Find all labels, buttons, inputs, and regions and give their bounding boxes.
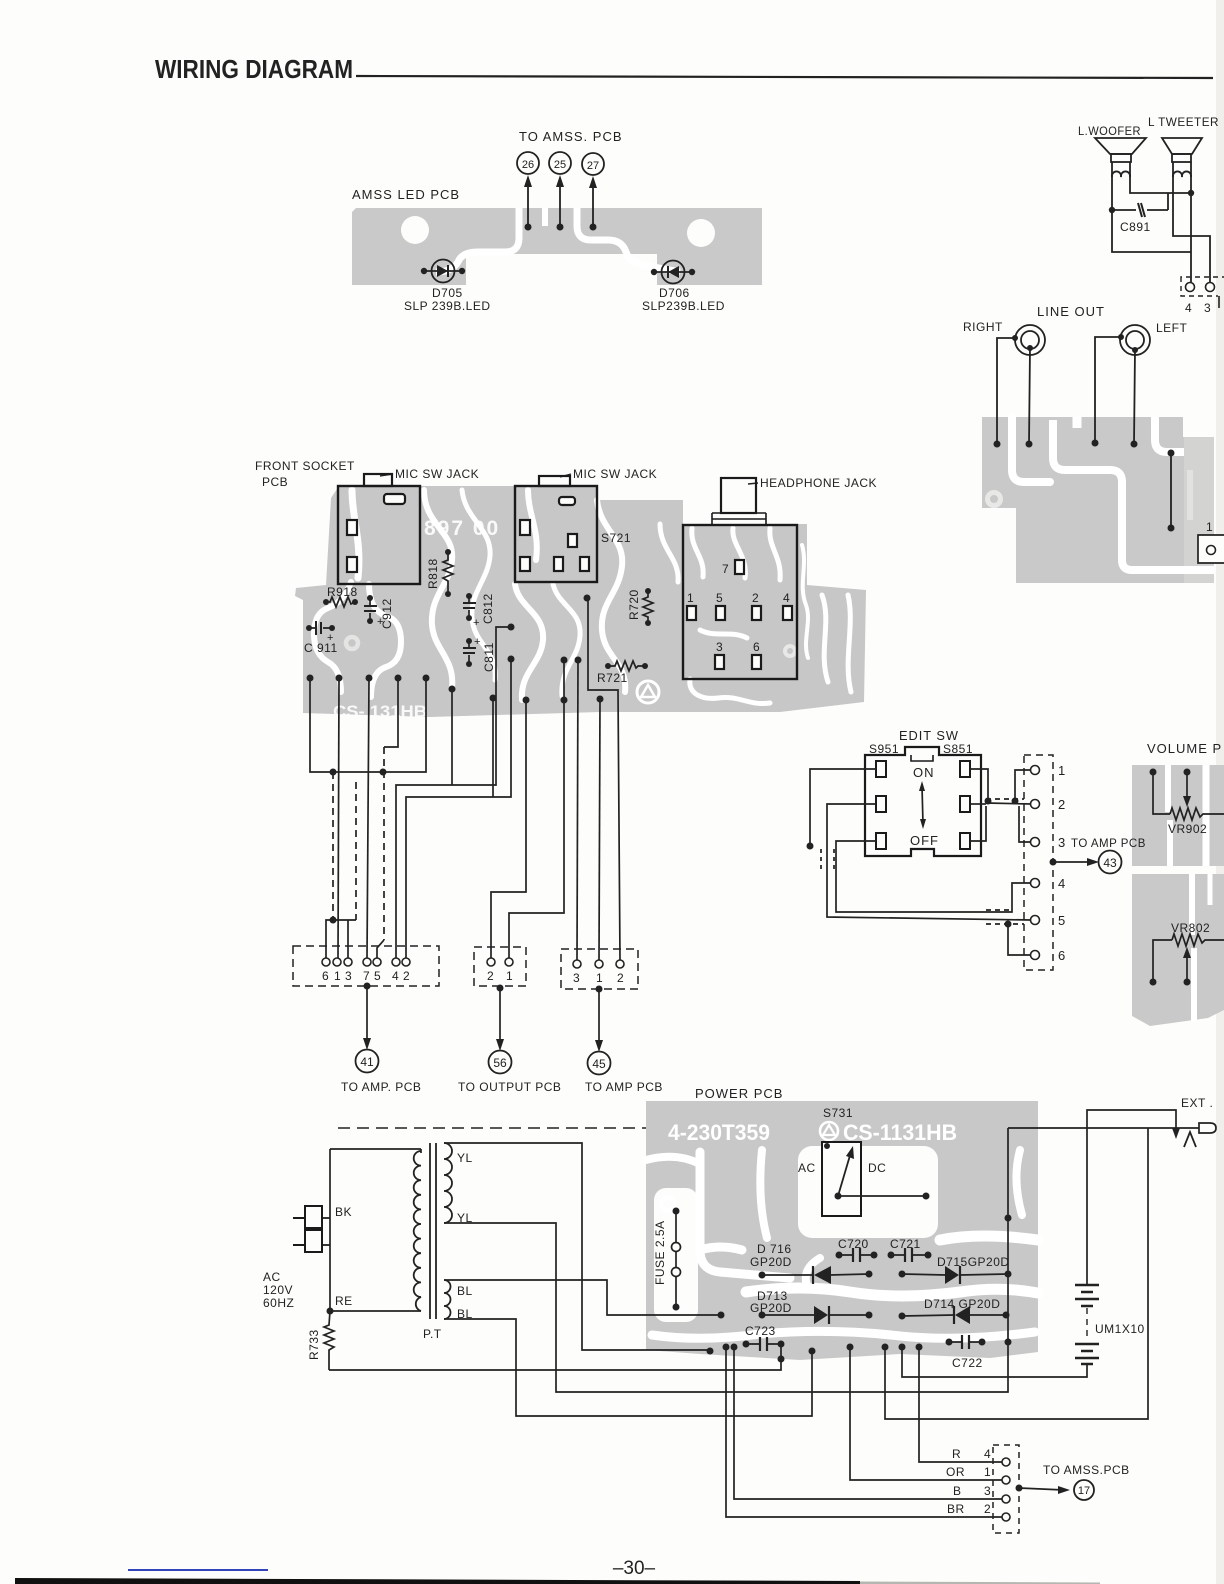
capacitor C722	[946, 1335, 986, 1370]
battery UM1X10	[902, 1110, 1180, 1377]
svg-text:TO AMP PCB: TO AMP PCB	[1071, 838, 1146, 850]
svg-text:4: 4	[1185, 301, 1192, 315]
svg-text:VOLUME P: VOLUME P	[1147, 741, 1222, 756]
connector 17 dashed box	[993, 1445, 1019, 1533]
wire YL mid lead	[444, 1128, 1008, 1392]
arrow to circle 45	[596, 986, 603, 993]
svg-text:4: 4	[984, 1447, 991, 1461]
svg-text:ON: ON	[913, 765, 935, 780]
svg-text:R733: R733	[307, 1329, 321, 1360]
svg-text:897 00: 897 00	[424, 517, 500, 540]
AMSS LED PCB board	[352, 208, 762, 285]
svg-text:3: 3	[984, 1484, 991, 1498]
capacitor C720	[836, 1237, 878, 1262]
svg-text:120V: 120V	[263, 1283, 293, 1297]
wire BL bottom lead	[444, 1319, 812, 1416]
svg-text:FUSE 2.5A: FUSE 2.5A	[653, 1220, 667, 1285]
svg-text:C722: C722	[952, 1356, 983, 1370]
dashed line to power pcb	[338, 1127, 646, 1129]
wire arrow to 25	[559, 180, 561, 227]
wire right pin bottom	[970, 806, 986, 841]
connector pins 1-6	[1031, 766, 1040, 960]
wire 56 pin1	[509, 660, 564, 958]
svg-text:S731: S731	[823, 1106, 853, 1120]
title WIRING DIAGRAM	[155, 54, 1213, 84]
PCB mounting hole right	[687, 219, 715, 247]
wire OR to pin1	[850, 1347, 1002, 1480]
wire right pin mid	[970, 803, 986, 805]
transformer secondary YL	[444, 1143, 452, 1223]
white triangle logo	[637, 681, 659, 703]
resistor R720	[627, 588, 653, 626]
wire woofer right lead	[1130, 177, 1191, 193]
svg-text:45: 45	[592, 1057, 606, 1071]
svg-text:SLP 239B.LED: SLP 239B.LED	[404, 299, 491, 313]
terminal circle 41	[356, 1050, 379, 1073]
wire left pin top	[810, 769, 876, 846]
svg-text:1: 1	[1206, 520, 1213, 534]
wire 45 pin1	[599, 699, 600, 960]
connector 41 pins	[322, 958, 410, 966]
white ring right	[785, 646, 795, 656]
wire R733 bus	[329, 1344, 781, 1370]
terminal circle 25	[549, 152, 571, 174]
transformer P.T primary coil	[414, 1151, 421, 1311]
arrow to circle 17	[1016, 1485, 1023, 1492]
wire pcb dot to bus	[310, 678, 426, 772]
svg-text:HEADPHONE JACK: HEADPHONE JACK	[760, 476, 877, 490]
switch arrow	[922, 786, 923, 824]
trace channels	[1168, 765, 1170, 866]
wire to pin3	[1019, 806, 1031, 842]
svg-text:EDIT SW: EDIT SW	[899, 728, 959, 743]
mounting hole ring	[988, 493, 1001, 506]
svg-text:1: 1	[506, 969, 513, 983]
EXT jack	[1180, 1096, 1216, 1147]
wire right jack shield	[997, 338, 1015, 444]
svg-text:MIC SW JACK: MIC SW JACK	[395, 467, 479, 481]
connector block 41 dashed box	[293, 946, 439, 986]
blue mark	[128, 1569, 268, 1571]
trace channels	[314, 490, 851, 704]
resistor R721	[597, 661, 648, 685]
terminal circle 45	[588, 1052, 611, 1075]
mic sw jack 1 body	[338, 486, 420, 584]
svg-text:AMSS LED PCB: AMSS LED PCB	[352, 187, 460, 202]
terminal circle 17	[1074, 1480, 1094, 1500]
wire YL top lead	[444, 1143, 710, 1350]
svg-text:CS- 131HB: CS- 131HB	[333, 702, 427, 721]
wire woofer left lead down	[1112, 177, 1191, 252]
svg-text:RIGHT: RIGHT	[963, 320, 1003, 334]
svg-text:D715GP20D: D715GP20D	[937, 1255, 1010, 1269]
svg-text:FRONT SOCKET: FRONT SOCKET	[255, 459, 355, 473]
svg-text:R: R	[952, 1447, 961, 1461]
svg-text:GP20D: GP20D	[750, 1301, 792, 1315]
svg-text:DC: DC	[868, 1161, 886, 1175]
resistor R818	[426, 549, 453, 597]
terminal circle 26	[517, 152, 539, 174]
svg-text:7: 7	[363, 969, 370, 983]
variable resistor VR802	[1150, 921, 1224, 986]
svg-text:+: +	[474, 636, 480, 648]
svg-text:5: 5	[374, 969, 381, 983]
svg-text:TO AMP PCB: TO AMP PCB	[585, 1080, 663, 1094]
switch body S951/S851	[865, 747, 981, 856]
wire left jack shield	[1095, 337, 1121, 443]
svg-text:TO AMSS. PCB: TO AMSS. PCB	[519, 129, 623, 144]
svg-text:3: 3	[573, 971, 580, 985]
wire horizontal h2 to pin2	[406, 659, 511, 958]
svg-text:1: 1	[334, 969, 341, 983]
svg-text:2: 2	[984, 1502, 991, 1516]
resistor R733	[307, 1311, 334, 1370]
wire 56 pin2	[491, 700, 526, 958]
terminal circle 43	[1099, 851, 1122, 874]
svg-text:LEFT: LEFT	[1156, 321, 1188, 335]
svg-text:BL: BL	[457, 1284, 473, 1298]
wire arrow to 26	[527, 180, 529, 227]
solder dots power bottom	[723, 1215, 1012, 1351]
speaker connector dashed box	[1181, 277, 1224, 296]
svg-text:3: 3	[1058, 835, 1065, 850]
AC plug	[293, 1206, 330, 1252]
white hole ring	[346, 637, 358, 649]
connector 1 o at right edge	[1198, 535, 1224, 563]
svg-text:B: B	[953, 1484, 962, 1498]
RCA jack LEFT	[1120, 325, 1150, 355]
svg-text:EXT .: EXT .	[1181, 1096, 1213, 1110]
svg-text:–30–: –30–	[613, 1558, 656, 1579]
svg-text:27: 27	[587, 160, 599, 172]
svg-text:2: 2	[487, 969, 494, 983]
LINE OUT PCB board	[982, 417, 1214, 583]
capacitor C912	[364, 595, 394, 629]
VOLUME PCB board upper	[1132, 765, 1224, 866]
dashed link	[986, 798, 1024, 800]
svg-text:C811: C811	[482, 642, 496, 672]
junction dots	[330, 769, 337, 776]
wire horizontal h1 to pin4	[396, 627, 511, 958]
svg-text:TO OUTPUT PCB: TO OUTPUT PCB	[458, 1080, 561, 1094]
svg-text:UM1X10: UM1X10	[1095, 1322, 1145, 1336]
capacitor C812	[463, 593, 495, 629]
wire left pin mid to pin5	[827, 804, 1031, 920]
wire to pin6	[1008, 924, 1031, 955]
dashed riser b	[355, 782, 357, 920]
trace channels	[646, 1146, 1038, 1338]
wire BL top lead	[444, 1280, 721, 1315]
diode D715 GP20D	[899, 1255, 1012, 1284]
node junction	[1188, 190, 1194, 196]
diode D713 GP20D	[750, 1289, 873, 1324]
diode D706	[642, 261, 725, 314]
wire pin7	[367, 678, 369, 958]
svg-text:2: 2	[617, 971, 624, 985]
tweeter voice coil	[1173, 162, 1191, 177]
svg-text:+: +	[473, 617, 479, 629]
svg-text:17: 17	[1078, 1485, 1090, 1497]
POWER PCB board	[646, 1101, 1038, 1360]
svg-text:4-230T359: 4-230T359	[668, 1120, 770, 1145]
transformer secondary BL	[444, 1280, 451, 1319]
wire jog to dashed	[384, 678, 398, 747]
svg-text:GP20D: GP20D	[750, 1255, 792, 1269]
svg-text:TO AMSS.PCB: TO AMSS.PCB	[1043, 1463, 1130, 1477]
svg-text:L.WOOFER: L.WOOFER	[1078, 124, 1141, 138]
diode D716 GP20D	[750, 1242, 873, 1284]
svg-text:6: 6	[1058, 948, 1065, 963]
svg-text:C812: C812	[481, 593, 495, 624]
svg-text:C 911: C 911	[304, 641, 338, 655]
connector block 45 dashed box	[561, 949, 638, 989]
wire EXT sleeve	[885, 1128, 1148, 1419]
wire pins 6 and 3	[326, 920, 356, 958]
mic sw jack 2 body	[515, 486, 597, 582]
dashed riser c	[383, 747, 385, 940]
capacitor C891	[1109, 193, 1168, 234]
svg-text:WIRING DIAGRAM: WIRING DIAGRAM	[155, 54, 353, 84]
svg-text:1: 1	[984, 1465, 991, 1479]
svg-text:C723: C723	[745, 1324, 776, 1338]
svg-text:TO AMP. PCB: TO AMP. PCB	[341, 1080, 421, 1094]
svg-text:OFF: OFF	[910, 833, 939, 848]
svg-text:1: 1	[1058, 763, 1065, 778]
switch pins right	[960, 761, 970, 777]
dashed riser a	[332, 772, 334, 920]
svg-text:4: 4	[783, 591, 790, 605]
headphone jack body	[683, 525, 797, 679]
svg-text:VR902: VR902	[1168, 822, 1207, 836]
svg-text:6: 6	[322, 969, 329, 983]
capacitor C723	[743, 1324, 785, 1351]
svg-text:43: 43	[1103, 856, 1117, 870]
svg-text:P.T: P.T	[423, 1327, 442, 1341]
arrow to circle 43	[1050, 859, 1057, 866]
wire riser at 493	[492, 698, 494, 797]
svg-text:2: 2	[403, 969, 410, 983]
RCA jack RIGHT	[1015, 325, 1045, 355]
switch S731	[798, 1106, 930, 1216]
svg-text:POWER PCB: POWER PCB	[695, 1086, 783, 1101]
wire R to pin4	[919, 1347, 1002, 1462]
terminal circle 27	[582, 153, 604, 175]
svg-text:R721: R721	[597, 671, 628, 685]
fuse F701	[653, 1198, 681, 1311]
svg-text:1: 1	[687, 591, 694, 605]
capacitor C811	[463, 636, 496, 672]
wire left pin bottom to pin4	[836, 841, 1031, 912]
svg-text:4: 4	[1058, 876, 1065, 891]
edit sw connector dashed box	[1024, 755, 1053, 970]
svg-text:AC: AC	[263, 1270, 281, 1284]
svg-text:60HZ: 60HZ	[263, 1296, 294, 1310]
diode D714 GP20D	[899, 1297, 1010, 1324]
wire 45 pin2	[588, 598, 620, 960]
capacitor C911	[304, 621, 338, 655]
svg-text:7: 7	[722, 562, 729, 576]
svg-text:PCB: PCB	[262, 475, 288, 489]
svg-text:YL: YL	[457, 1151, 473, 1165]
wire arrow to 27	[592, 181, 594, 227]
svg-text:5: 5	[1058, 913, 1065, 928]
wire pin5	[377, 940, 384, 958]
PCB trace white channels	[436, 208, 519, 272]
svg-text:SLP239B.LED: SLP239B.LED	[642, 299, 725, 313]
speaker L.WOOFER	[1095, 138, 1146, 162]
svg-text:3: 3	[1204, 301, 1211, 315]
svg-text:6: 6	[753, 640, 760, 654]
wire tweeter left lead	[1173, 177, 1210, 282]
white silk logo	[820, 1122, 838, 1140]
svg-text:C891: C891	[1120, 220, 1151, 234]
svg-text:AC: AC	[798, 1161, 816, 1175]
wire B to pin3	[734, 1347, 1002, 1499]
wire bus to pin2	[986, 803, 1031, 804]
solder dots on pcb	[1168, 450, 1175, 457]
transformer core	[430, 1143, 436, 1319]
svg-text:3: 3	[716, 640, 723, 654]
wire right jack center	[1029, 348, 1030, 444]
variable resistor VR902	[1150, 769, 1224, 837]
wire to pin1	[1015, 770, 1031, 803]
wire pin1	[338, 678, 339, 958]
wire BR to pin2	[726, 1347, 1002, 1517]
connector pin 3	[1206, 283, 1215, 292]
speaker L TWEETER	[1162, 138, 1202, 162]
junction dots	[807, 843, 814, 850]
svg-text:56: 56	[493, 1056, 507, 1070]
svg-text:C912: C912	[380, 598, 394, 629]
VOLUME PCB board lower	[1132, 874, 1224, 1026]
solder dots	[307, 595, 604, 924]
svg-text:BR: BR	[947, 1502, 965, 1516]
FRONT SOCKET PCB board	[295, 486, 866, 717]
svg-text:2: 2	[752, 591, 759, 605]
svg-text:L TWEETER: L TWEETER	[1148, 115, 1219, 129]
right page edge shading	[1216, 0, 1224, 1584]
connector block 56 dashed box	[474, 947, 526, 986]
svg-text:3: 3	[345, 969, 352, 983]
wire tweeter right lead	[1190, 177, 1192, 282]
svg-text:RE: RE	[335, 1294, 353, 1308]
svg-text:2: 2	[1058, 797, 1065, 812]
svg-text:41: 41	[360, 1055, 374, 1069]
arrow to circle 56	[497, 985, 504, 992]
svg-text:D714 GP20D: D714 GP20D	[924, 1297, 1000, 1311]
terminal circle 56	[489, 1051, 512, 1074]
capacitor C721	[888, 1237, 932, 1262]
svg-text:1: 1	[596, 971, 603, 985]
svg-text:D 716: D 716	[757, 1242, 792, 1256]
resistor R918	[323, 585, 358, 607]
svg-text:5: 5	[716, 591, 723, 605]
svg-text:OR: OR	[946, 1465, 965, 1479]
arrow to circle 41	[364, 983, 371, 990]
bottom scan bar	[15, 1578, 860, 1584]
svg-text:R818: R818	[426, 558, 440, 589]
trace channels	[1012, 417, 1050, 482]
svg-text:BK: BK	[335, 1205, 352, 1219]
woofer voice coil	[1112, 162, 1130, 177]
wire right pin top	[970, 769, 988, 803]
wire on pcb	[1170, 453, 1172, 528]
wire left jack center	[1134, 350, 1135, 444]
dashed stubs below junction	[820, 849, 822, 871]
wire riser at 452	[451, 689, 453, 785]
svg-text:D705: D705	[432, 286, 463, 300]
svg-text:D706: D706	[659, 286, 690, 300]
wire 45 pin3	[577, 660, 578, 960]
svg-text:MIC SW JACK: MIC SW JACK	[573, 467, 657, 481]
svg-text:VR802: VR802	[1171, 921, 1210, 935]
PCB mounting hole left	[401, 216, 429, 244]
svg-text:4: 4	[392, 969, 399, 983]
switch pins left	[876, 761, 886, 777]
svg-text:S721: S721	[601, 531, 631, 545]
svg-text:25: 25	[554, 159, 566, 171]
connector pin 4	[1186, 283, 1195, 292]
wire plug to transformer primary	[329, 1149, 331, 1311]
svg-text:26: 26	[522, 159, 534, 171]
svg-text:R720: R720	[627, 589, 641, 620]
svg-text:LINE OUT: LINE OUT	[1037, 304, 1105, 319]
diode D705	[404, 260, 491, 314]
